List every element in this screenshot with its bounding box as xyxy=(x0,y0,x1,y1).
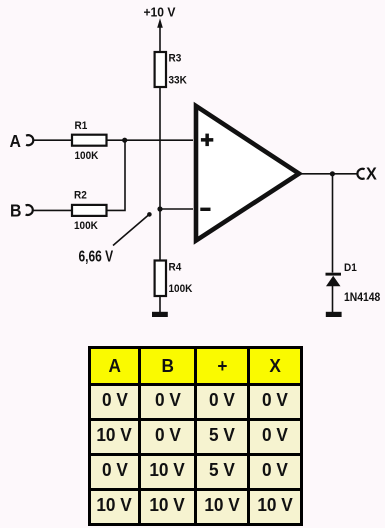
svg-text:6,66 V: 6,66 V xyxy=(79,247,114,265)
svg-text:D1: D1 xyxy=(344,261,357,274)
svg-text:1N4148: 1N4148 xyxy=(344,291,380,304)
svg-text:+10 V: +10 V xyxy=(144,5,177,19)
svg-text:R2: R2 xyxy=(74,189,87,202)
svg-text:100K: 100K xyxy=(169,282,193,295)
svg-text:X: X xyxy=(366,164,377,184)
svg-text:100K: 100K xyxy=(75,149,99,162)
svg-text:R1: R1 xyxy=(75,119,88,132)
svg-text:100K: 100K xyxy=(74,219,98,232)
svg-text:B: B xyxy=(10,201,21,221)
svg-text:33K: 33K xyxy=(169,74,188,87)
svg-text:A: A xyxy=(10,131,21,151)
svg-text:R3: R3 xyxy=(169,52,182,65)
svg-text:R4: R4 xyxy=(169,261,182,274)
